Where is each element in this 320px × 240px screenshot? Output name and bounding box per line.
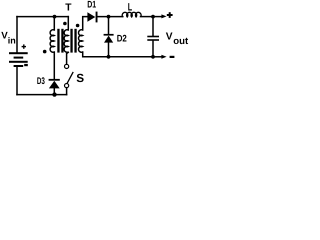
output - sign	[170, 56, 175, 58]
svg-text:S: S	[76, 71, 84, 85]
svg-text:D1: D1	[87, 0, 96, 11]
svg-text:D3: D3	[37, 76, 45, 87]
polarity dot secondary winding	[76, 24, 80, 28]
svg-text:in: in	[8, 36, 16, 46]
transformer core right pair	[70, 29, 76, 53]
svg-text:out: out	[173, 36, 189, 47]
polarity dot reset winding	[43, 50, 47, 54]
node junction dot cap bottom	[151, 55, 155, 59]
wire secondary top lead to D1 anode	[83, 17, 88, 30]
node junction dot D2 bottom	[107, 55, 111, 59]
wire switch bottom lead	[66, 88, 68, 95]
wire cap bottom lead	[152, 41, 154, 57]
wire D1 cathode to D2 node	[98, 16, 123, 18]
battery - sign	[24, 64, 28, 66]
node junction dot L-cap-out	[151, 15, 155, 19]
wire bottom-left rail	[17, 94, 67, 96]
wire output + arrow line	[153, 16, 162, 18]
switch S top contact circle	[65, 64, 69, 68]
wire cap top lead	[152, 17, 154, 36]
wire L to cap node	[141, 16, 154, 18]
svg-text:D2: D2	[117, 34, 127, 45]
inductor L coil	[122, 12, 141, 17]
capacitor C plates	[147, 36, 159, 41]
output + sign	[167, 12, 173, 18]
wire primary winding top lead	[67, 17, 69, 30]
wire output - arrow line	[153, 56, 162, 58]
wire D3 bottom lead	[53, 88, 55, 94]
svg-text:V: V	[166, 32, 173, 43]
node junction dot Vin+/reset top	[53, 15, 57, 19]
battery + sign	[22, 44, 26, 48]
switch S blade	[67, 72, 73, 83]
output + arrow head	[161, 14, 166, 18]
node junction dot D1-D2-L	[107, 15, 111, 19]
wire secondary bottom rail	[83, 52, 153, 57]
diode D3 (reset, vertical)	[49, 79, 60, 89]
wire switch top lead with jog to winding	[67, 52, 69, 64]
transformer core left pair	[57, 29, 63, 53]
transformer T secondary winding (right)	[79, 30, 83, 53]
diode D2 (freewheel, vertical)	[104, 34, 114, 43]
wire reset winding top lead	[53, 17, 55, 30]
wire D2 bottom lead	[108, 43, 110, 57]
transformer T primary winding (middle)	[64, 30, 68, 53]
svg-text:T: T	[65, 3, 72, 14]
wire D2 top lead	[108, 17, 110, 34]
wire reset winding bottom lead to D3	[53, 52, 55, 79]
battery Vin plates	[9, 52, 28, 67]
wire left drop to battery	[16, 17, 18, 53]
wire battery bottom lead	[16, 67, 18, 95]
svg-text:L: L	[128, 2, 133, 14]
output - arrow head	[161, 55, 166, 59]
wire top-left rail from Vin+ to primary top	[17, 16, 68, 18]
transformer T reset winding (left)	[50, 30, 54, 53]
polarity dot primary winding	[63, 22, 67, 26]
diode D1 (series, horizontal)	[87, 12, 97, 23]
switch S bottom contact circle	[65, 84, 69, 88]
node junction dot D3 bottom rail	[52, 92, 56, 96]
